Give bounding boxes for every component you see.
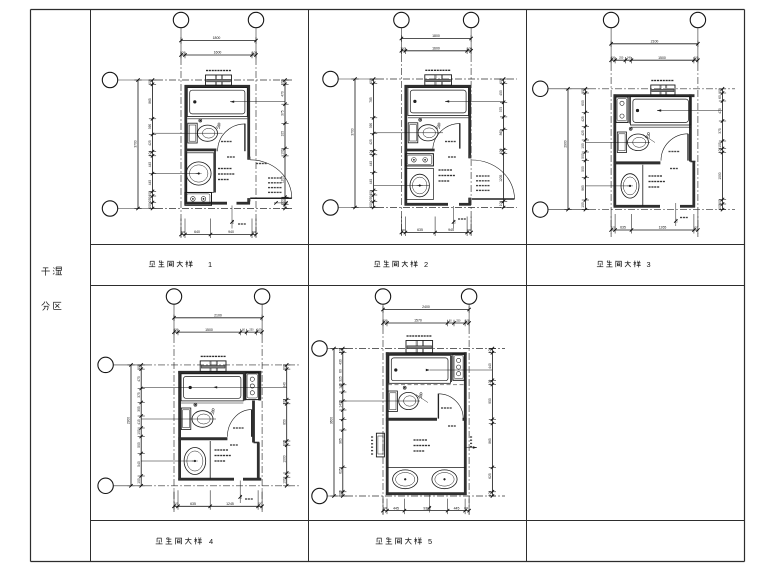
svg-text:445: 445 bbox=[369, 179, 373, 185]
svg-text:440: 440 bbox=[488, 363, 492, 369]
svg-text:100: 100 bbox=[467, 46, 472, 50]
svg-text:100: 100 bbox=[718, 199, 722, 205]
svg-text:445: 445 bbox=[148, 180, 152, 186]
svg-text:750: 750 bbox=[231, 219, 235, 224]
svg-text:100: 100 bbox=[258, 502, 263, 506]
svg-text:470: 470 bbox=[137, 376, 141, 382]
svg-text:470: 470 bbox=[281, 91, 285, 97]
svg-text:940: 940 bbox=[228, 230, 234, 234]
svg-text:100: 100 bbox=[383, 320, 388, 323]
svg-text:100: 100 bbox=[488, 491, 492, 497]
svg-text:140: 140 bbox=[338, 383, 342, 389]
svg-text:450: 450 bbox=[499, 90, 503, 96]
svg-text:4: 4 bbox=[209, 537, 213, 546]
svg-text:100: 100 bbox=[369, 202, 373, 208]
svg-text:100: 100 bbox=[181, 230, 186, 234]
svg-text:100: 100 bbox=[611, 225, 616, 229]
svg-text:1600: 1600 bbox=[432, 47, 440, 51]
svg-text:1: 1 bbox=[208, 260, 212, 269]
svg-text:250: 250 bbox=[249, 329, 254, 332]
svg-text:100: 100 bbox=[488, 348, 492, 354]
svg-text:2900: 2900 bbox=[564, 140, 568, 147]
svg-text:750: 750 bbox=[428, 505, 432, 510]
svg-text:960: 960 bbox=[581, 185, 585, 191]
svg-text:325: 325 bbox=[338, 376, 342, 382]
svg-text:1600: 1600 bbox=[214, 51, 222, 55]
svg-text:5: 5 bbox=[428, 537, 432, 546]
svg-text:635: 635 bbox=[190, 502, 196, 506]
svg-text:425: 425 bbox=[581, 116, 585, 122]
svg-text:2: 2 bbox=[424, 260, 428, 269]
svg-text:640: 640 bbox=[194, 230, 200, 234]
svg-text:250: 250 bbox=[456, 320, 461, 323]
svg-text:1500: 1500 bbox=[205, 328, 213, 332]
svg-text:2100: 2100 bbox=[214, 314, 222, 318]
svg-text:100: 100 bbox=[369, 78, 373, 84]
svg-text:2400: 2400 bbox=[422, 305, 430, 309]
svg-text:100: 100 bbox=[611, 57, 616, 60]
svg-text:104: 104 bbox=[369, 150, 373, 156]
svg-text:1430: 1430 bbox=[338, 400, 342, 407]
svg-text:1000: 1000 bbox=[282, 455, 286, 462]
svg-text:3: 3 bbox=[646, 260, 650, 269]
svg-text:840: 840 bbox=[282, 382, 286, 388]
svg-text:500: 500 bbox=[137, 442, 141, 448]
svg-text:100: 100 bbox=[464, 506, 469, 510]
svg-text:375: 375 bbox=[137, 392, 141, 398]
svg-text:750: 750 bbox=[452, 219, 456, 224]
svg-text:390: 390 bbox=[148, 124, 152, 130]
svg-text:145: 145 bbox=[627, 57, 632, 60]
svg-text:635: 635 bbox=[620, 226, 626, 230]
svg-text:100: 100 bbox=[338, 490, 342, 496]
svg-text:250: 250 bbox=[148, 197, 152, 203]
svg-text:250: 250 bbox=[369, 196, 373, 202]
svg-text:100: 100 bbox=[137, 478, 141, 484]
svg-text:850: 850 bbox=[282, 419, 286, 425]
svg-text:100: 100 bbox=[467, 228, 472, 232]
svg-text:100: 100 bbox=[499, 78, 503, 84]
svg-text:100: 100 bbox=[282, 399, 286, 405]
svg-text:100: 100 bbox=[465, 319, 470, 323]
svg-text:375: 375 bbox=[499, 107, 503, 113]
svg-text:965: 965 bbox=[338, 438, 342, 444]
svg-text:100: 100 bbox=[499, 148, 503, 154]
svg-text:600: 600 bbox=[581, 100, 585, 106]
svg-text:100: 100 bbox=[282, 440, 286, 446]
svg-text:100: 100 bbox=[174, 502, 179, 506]
svg-text:445: 445 bbox=[369, 161, 373, 167]
svg-text:375: 375 bbox=[281, 110, 285, 116]
svg-text:100: 100 bbox=[694, 56, 699, 60]
svg-text:2900: 2900 bbox=[127, 417, 131, 424]
svg-text:100: 100 bbox=[401, 228, 406, 232]
svg-text:100: 100 bbox=[718, 148, 722, 154]
svg-text:430: 430 bbox=[338, 359, 342, 365]
svg-text:785: 785 bbox=[369, 97, 373, 103]
svg-text:945: 945 bbox=[448, 228, 454, 232]
svg-text:60: 60 bbox=[338, 369, 342, 373]
svg-text:100: 100 bbox=[581, 88, 585, 94]
svg-text:100: 100 bbox=[383, 506, 388, 510]
svg-text:1800: 1800 bbox=[213, 36, 221, 40]
svg-text:865: 865 bbox=[148, 98, 152, 104]
svg-text:950: 950 bbox=[488, 398, 492, 404]
svg-text:3700: 3700 bbox=[351, 128, 355, 135]
svg-text:445: 445 bbox=[148, 162, 152, 168]
svg-text:750: 750 bbox=[675, 218, 679, 223]
svg-text:100: 100 bbox=[488, 380, 492, 386]
svg-text:100: 100 bbox=[499, 201, 503, 207]
svg-text:425: 425 bbox=[148, 140, 152, 146]
svg-text:445: 445 bbox=[393, 506, 399, 510]
svg-text:625: 625 bbox=[338, 468, 342, 474]
svg-text:445: 445 bbox=[454, 506, 460, 510]
svg-text:1800: 1800 bbox=[432, 34, 440, 38]
svg-text:100: 100 bbox=[281, 149, 285, 155]
svg-text:100: 100 bbox=[718, 88, 722, 94]
svg-text:100: 100 bbox=[581, 202, 585, 208]
svg-text:100: 100 bbox=[252, 230, 257, 234]
svg-text:100: 100 bbox=[252, 51, 257, 55]
svg-text:540: 540 bbox=[137, 461, 141, 467]
svg-text:470: 470 bbox=[718, 108, 722, 114]
svg-text:1570: 1570 bbox=[414, 319, 422, 323]
svg-text:105: 105 bbox=[718, 142, 722, 148]
svg-text:100: 100 bbox=[137, 429, 141, 435]
svg-text:100: 100 bbox=[338, 348, 342, 354]
svg-text:415: 415 bbox=[137, 419, 141, 425]
svg-text:625: 625 bbox=[488, 473, 492, 479]
svg-text:100: 100 bbox=[174, 329, 179, 332]
svg-text:500: 500 bbox=[581, 153, 585, 159]
svg-text:425: 425 bbox=[369, 139, 373, 145]
svg-text:100: 100 bbox=[180, 51, 185, 55]
svg-text:1205: 1205 bbox=[499, 174, 503, 181]
svg-text:104: 104 bbox=[148, 151, 152, 157]
svg-text:635: 635 bbox=[417, 228, 423, 232]
svg-text:865: 865 bbox=[499, 130, 503, 136]
svg-text:100: 100 bbox=[400, 46, 405, 50]
svg-text:100: 100 bbox=[281, 79, 285, 85]
svg-text:1500: 1500 bbox=[658, 56, 666, 60]
svg-text:100: 100 bbox=[257, 328, 262, 332]
svg-text:500: 500 bbox=[581, 166, 585, 172]
svg-text:60: 60 bbox=[718, 95, 722, 99]
svg-text:375: 375 bbox=[718, 128, 722, 134]
svg-text:100: 100 bbox=[369, 190, 373, 196]
svg-text:105: 105 bbox=[281, 131, 285, 137]
svg-text:250: 250 bbox=[619, 57, 624, 60]
svg-text:100: 100 bbox=[718, 204, 722, 210]
svg-text:100: 100 bbox=[148, 79, 152, 85]
svg-text:750: 750 bbox=[239, 494, 243, 499]
svg-text:1265: 1265 bbox=[659, 226, 667, 230]
svg-text:3600: 3600 bbox=[330, 417, 334, 424]
svg-text:305: 305 bbox=[137, 406, 141, 412]
svg-text:100: 100 bbox=[137, 364, 141, 370]
svg-text:100: 100 bbox=[282, 478, 286, 484]
svg-text:100: 100 bbox=[148, 203, 152, 209]
svg-text:390: 390 bbox=[369, 123, 373, 129]
svg-text:1205: 1205 bbox=[281, 176, 285, 183]
svg-text:865: 865 bbox=[488, 438, 492, 444]
svg-text:100: 100 bbox=[281, 199, 285, 205]
svg-text:425: 425 bbox=[581, 130, 585, 136]
svg-text:2100: 2100 bbox=[651, 40, 659, 44]
svg-text:100: 100 bbox=[148, 191, 152, 197]
svg-text:100: 100 bbox=[581, 143, 585, 149]
svg-text:1000: 1000 bbox=[718, 172, 722, 179]
svg-text:3700: 3700 bbox=[134, 140, 138, 147]
svg-text:1245: 1245 bbox=[226, 502, 234, 506]
svg-text:100: 100 bbox=[282, 364, 286, 370]
svg-text:100: 100 bbox=[693, 225, 698, 229]
